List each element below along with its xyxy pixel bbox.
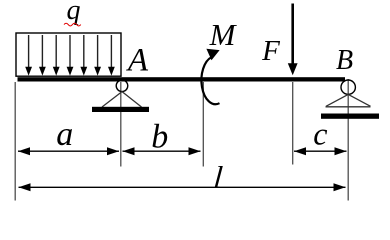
distributed load arrow 4	[67, 35, 74, 76]
dimension b right arrowhead	[189, 147, 201, 155]
moment M arrowhead	[206, 49, 219, 61]
dimension a left arrowhead	[18, 147, 30, 155]
distributed load arrow 5	[80, 35, 87, 76]
extension line at support B	[347, 79, 349, 201]
force F arrow shaft	[291, 4, 294, 65]
extension line at support A	[120, 82, 122, 167]
support B base line thin	[326, 106, 371, 108]
red squiggle under q	[64, 23, 81, 26]
svg-text:A: A	[126, 43, 149, 79]
distributed load arrow 3	[53, 35, 60, 76]
distributed load arrow 2	[39, 35, 46, 76]
force F arrowhead	[288, 63, 298, 75]
distributed load arrow 7	[108, 35, 115, 76]
svg-text:q: q	[67, 0, 81, 26]
dimension l right arrowhead	[334, 183, 346, 191]
dimension a right arrowhead	[107, 147, 119, 155]
svg-text:B: B	[336, 45, 353, 76]
beam	[18, 77, 346, 81]
support A circle	[116, 80, 128, 92]
support B ground bar	[321, 114, 379, 119]
support B left leg	[326, 94, 348, 106]
dimension l line	[19, 186, 346, 188]
dimension c right arrowhead	[335, 147, 347, 155]
extension line left end of beam	[14, 82, 16, 201]
dimension b left arrowhead	[123, 147, 135, 155]
svg-text:a: a	[56, 116, 73, 153]
dimension c left arrowhead	[294, 147, 306, 155]
support B right leg	[348, 94, 370, 106]
svg-text:F: F	[261, 35, 280, 67]
dimension l left arrowhead	[19, 183, 31, 191]
support B circle	[341, 80, 355, 94]
dimension a line	[18, 150, 119, 152]
support A left leg	[102, 92, 122, 107]
svg-text:b: b	[151, 118, 168, 155]
distributed load arrow 1	[25, 35, 32, 76]
extension line at force F	[292, 82, 294, 165]
distributed load arrow 6	[94, 35, 101, 76]
distributed load box	[16, 33, 121, 76]
dimension b line	[123, 150, 201, 152]
support A right leg	[122, 92, 142, 107]
support A base	[92, 107, 149, 112]
svg-text:c: c	[313, 115, 327, 151]
moment M arc	[201, 57, 219, 104]
dimension c line	[294, 150, 347, 152]
extension line at moment M	[202, 82, 204, 167]
svg-text:l: l	[212, 160, 224, 195]
svg-text:M: M	[209, 17, 238, 52]
